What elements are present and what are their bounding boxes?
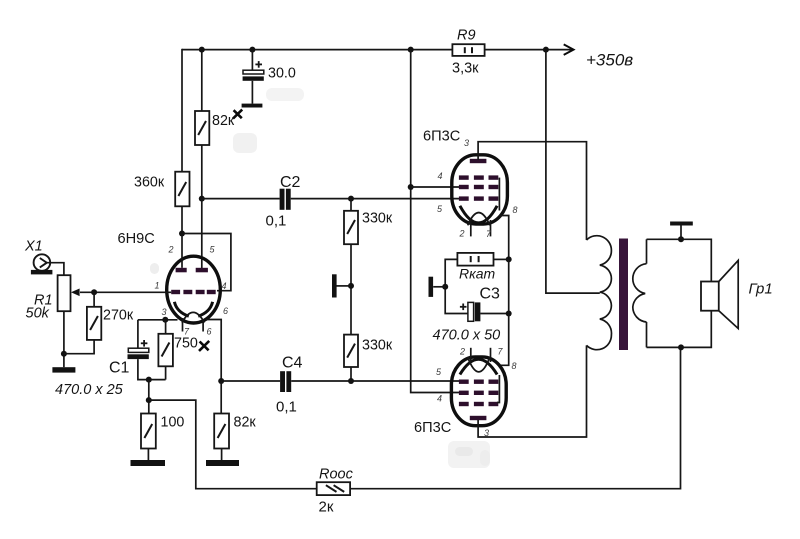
svg-text:8: 8: [512, 361, 517, 371]
svg-text:2: 2: [459, 347, 465, 357]
wire 360k to anode node: [181, 206, 183, 233]
node top rail a: [199, 47, 205, 53]
node C2 junction: [199, 196, 205, 202]
svg-text:6: 6: [223, 306, 228, 316]
wire R1 bottom: [63, 311, 65, 367]
svg-text:270к: 270к: [103, 308, 134, 324]
svg-text:X1: X1: [24, 239, 43, 255]
ground 100: [131, 460, 166, 466]
transformer T1 primary winding: [587, 236, 612, 350]
svg-text:30.0: 30.0: [268, 66, 296, 82]
node screen upper: [408, 184, 414, 190]
svg-text:7: 7: [498, 347, 504, 357]
svg-text:3: 3: [162, 307, 167, 317]
wire grid1 input: [80, 291, 171, 293]
V2 anode lead: [478, 345, 586, 437]
wire 270k bottom: [64, 340, 94, 354]
tube V1 6P3S upper envelope: [452, 155, 508, 224]
svg-text:5: 5: [436, 367, 442, 377]
wire 82k to C2 node: [201, 145, 203, 199]
wire 82k bottom drop: [220, 381, 222, 414]
node Rkat right: [506, 256, 512, 262]
wire Rkat loop: [445, 259, 468, 313]
node secondary bottom: [678, 344, 684, 350]
V1 cathode: [460, 206, 497, 223]
node +350v arrow: [564, 44, 634, 69]
wire B+ to center tap: [546, 50, 600, 294]
resistor 750: [158, 320, 198, 380]
resistor 82k lower: [214, 414, 256, 449]
speaker Gr1: [701, 260, 773, 328]
V1 cathode lead: [499, 216, 509, 260]
wire cathode1 pin3: [138, 319, 178, 321]
node 330k top: [348, 196, 354, 202]
wire feedback to speaker: [350, 347, 680, 488]
U1 cathode left: [174, 302, 188, 316]
wire feedback run: [149, 400, 317, 489]
tube U1 6N9S envelope: [167, 256, 221, 323]
svg-text:8: 8: [513, 205, 518, 215]
svg-text:3: 3: [464, 138, 469, 148]
svg-text:C3: C3: [480, 286, 501, 303]
svg-text:82к: 82к: [212, 113, 235, 129]
svg-text:6П3С: 6П3С: [423, 129, 460, 145]
resistor Rkat: [457, 253, 495, 282]
wire cathode2 pin6: [206, 320, 221, 382]
svg-text:6П3С: 6П3С: [414, 420, 451, 436]
wire C4 to grid lower tube: [291, 380, 460, 382]
capacitor C1 electrolytic: [55, 320, 166, 398]
svg-text:0,1: 0,1: [276, 399, 297, 416]
ground R1: [52, 367, 75, 372]
svg-text:2: 2: [168, 245, 174, 255]
svg-text:82к: 82к: [234, 415, 257, 431]
V1 heater stubs: [471, 220, 491, 236]
wire screen to upper tube g2: [411, 186, 460, 188]
smudge near 82k x-mark: [233, 133, 257, 153]
svg-text:3,3к: 3,3к: [452, 61, 479, 77]
transformer T1 secondary winding: [633, 239, 647, 347]
node C3 right: [506, 311, 512, 317]
capacitor C3 electrolytic: [433, 286, 501, 344]
V1 heater dome: [468, 213, 490, 226]
wire C2 line: [202, 198, 280, 200]
smudge inside tube1: [150, 263, 159, 274]
capacitor C2: [266, 174, 301, 229]
x-mark near 82k: [233, 110, 242, 119]
V2 grid rows: [459, 380, 498, 407]
svg-text:2к: 2к: [319, 499, 334, 516]
ground sideways at cathode: [429, 277, 446, 297]
svg-text:6: 6: [207, 327, 212, 337]
U1 anode plate right: [196, 268, 208, 273]
node top rail d: [543, 47, 549, 53]
svg-text:Гр1: Гр1: [749, 281, 773, 298]
U1 grid dashes: [171, 290, 216, 294]
wire cathode lower tube: [499, 259, 509, 365]
x-mark near 750: [199, 341, 209, 351]
connector X1: [24, 239, 52, 275]
resistor 330k lower: [344, 335, 393, 367]
svg-text:C4: C4: [282, 355, 303, 372]
svg-text:330к: 330к: [362, 338, 393, 354]
V1 grid right link: [498, 178, 500, 211]
svg-text:360к: 360к: [134, 175, 165, 191]
V1 anode lead: [478, 142, 586, 240]
resistor 330k upper: [344, 199, 393, 245]
svg-text:470.0 x 25: 470.0 x 25: [55, 382, 124, 398]
potentiometer R1: [26, 275, 80, 321]
tube V2 6P3S lower envelope: [451, 357, 506, 426]
resistor 82k upper: [195, 111, 235, 145]
capacitor 30.0 electrolytic: [243, 50, 296, 104]
V1 anode plate: [470, 159, 487, 163]
svg-text:5: 5: [210, 245, 216, 255]
resistor 100: [141, 414, 184, 449]
U1 heater pin stubs: [183, 318, 204, 332]
smudge ghost below lower tube: [448, 441, 490, 468]
svg-text:750: 750: [174, 336, 198, 352]
U1 plate lead left: [181, 234, 183, 268]
node C1 bottom: [146, 377, 152, 383]
node divider mid: [348, 283, 354, 289]
svg-text:50k: 50k: [26, 306, 50, 322]
svg-text:4: 4: [222, 281, 227, 291]
svg-text:100: 100: [161, 415, 185, 431]
wire 100 to ground: [147, 449, 149, 461]
wire screen supply drop: [411, 50, 460, 393]
wire C4 line: [221, 380, 280, 382]
wire 82k to ground: [221, 449, 223, 461]
node pin6 bottom: [218, 378, 224, 384]
svg-text:0,1: 0,1: [266, 212, 287, 229]
V2 cathode: [460, 359, 497, 374]
svg-text:Rкат: Rкат: [459, 266, 496, 282]
V2 heater stubs: [471, 348, 491, 362]
node feedback: [146, 397, 152, 403]
wire top supply rail: [182, 49, 573, 51]
svg-text:3: 3: [484, 428, 489, 438]
wire secondary loop bottom: [647, 311, 712, 348]
svg-text:2: 2: [459, 229, 465, 239]
ground under 30.0: [242, 104, 263, 108]
svg-text:R9: R9: [457, 28, 476, 44]
node ground tap: [442, 284, 448, 290]
wire 330k mid: [350, 244, 352, 334]
U1 heater dome: [182, 312, 204, 322]
node secondary top: [678, 236, 684, 242]
svg-text:4: 4: [437, 394, 442, 404]
U1 pin labels: [155, 245, 229, 337]
wire secondary loop top: [647, 239, 712, 281]
svg-text:330к: 330к: [362, 211, 393, 227]
svg-text:6Н9С: 6Н9С: [118, 231, 155, 247]
svg-text:470.0 x 50: 470.0 x 50: [433, 328, 501, 344]
wire C2 to grid1 upper tube: [291, 198, 460, 200]
resistor Roos: [317, 467, 354, 516]
svg-text:C1: C1: [109, 360, 130, 377]
wire drop to 82k top: [201, 49, 203, 111]
node pin3: [162, 317, 168, 323]
U1 anode plate left: [176, 268, 187, 273]
resistor 360k: [134, 172, 190, 207]
wire anode1 to grid pin4: [182, 234, 231, 291]
svg-text:1: 1: [155, 281, 160, 291]
svg-text:Rоос: Rоос: [319, 467, 354, 483]
V2 pin labels: [436, 347, 517, 439]
U1 cathode right: [198, 302, 212, 316]
V2 heater dome: [468, 357, 490, 372]
capacitor C4: [276, 355, 303, 416]
resistor R9: [452, 28, 485, 77]
node top rail c: [408, 47, 414, 53]
V2 grid right link: [497, 375, 499, 403]
V2 anode plate: [470, 416, 487, 420]
svg-text:C2: C2: [280, 174, 301, 191]
transformer T1 core: [619, 239, 628, 351]
wire X1 to R1: [47, 263, 64, 276]
node R1 bottom: [61, 351, 67, 357]
wire left drop to 360k: [181, 49, 183, 172]
wire anode2 drop: [201, 199, 203, 269]
node wiper junction: [91, 289, 97, 295]
svg-text:+350в: +350в: [586, 51, 633, 70]
node top rail b: [249, 47, 255, 53]
wire to feedback node: [148, 380, 150, 414]
wire 330k bottom to C4 line: [350, 367, 352, 381]
node anode1: [179, 231, 185, 237]
svg-text:5: 5: [437, 204, 443, 214]
resistor 270k: [87, 292, 134, 340]
ground T at secondary: [670, 222, 693, 240]
node C4 line junction: [348, 378, 354, 384]
wire C3 right: [480, 313, 508, 315]
ground sideways at divider: [332, 274, 351, 297]
ground 82k: [206, 460, 239, 466]
V1 pin labels: [437, 138, 518, 239]
wire Rkat to node: [494, 258, 509, 260]
V1 grid rows: [459, 175, 498, 200]
svg-text:4: 4: [438, 171, 443, 181]
smudge near 30.0 cap: [266, 88, 304, 101]
